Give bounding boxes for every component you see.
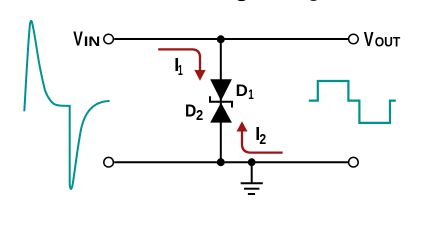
svg-text:1: 1 (178, 63, 183, 79)
svg-text:IN: IN (84, 34, 100, 49)
svg-text:D: D (236, 82, 248, 100)
svg-text:OUT: OUT (375, 34, 401, 49)
svg-text:D: D (185, 100, 196, 120)
svg-text:V: V (364, 29, 374, 51)
svg-text:2: 2 (196, 107, 203, 124)
svg-text:1: 1 (248, 86, 254, 102)
svg-text:V: V (73, 28, 83, 50)
svg-text:2: 2 (259, 131, 266, 148)
